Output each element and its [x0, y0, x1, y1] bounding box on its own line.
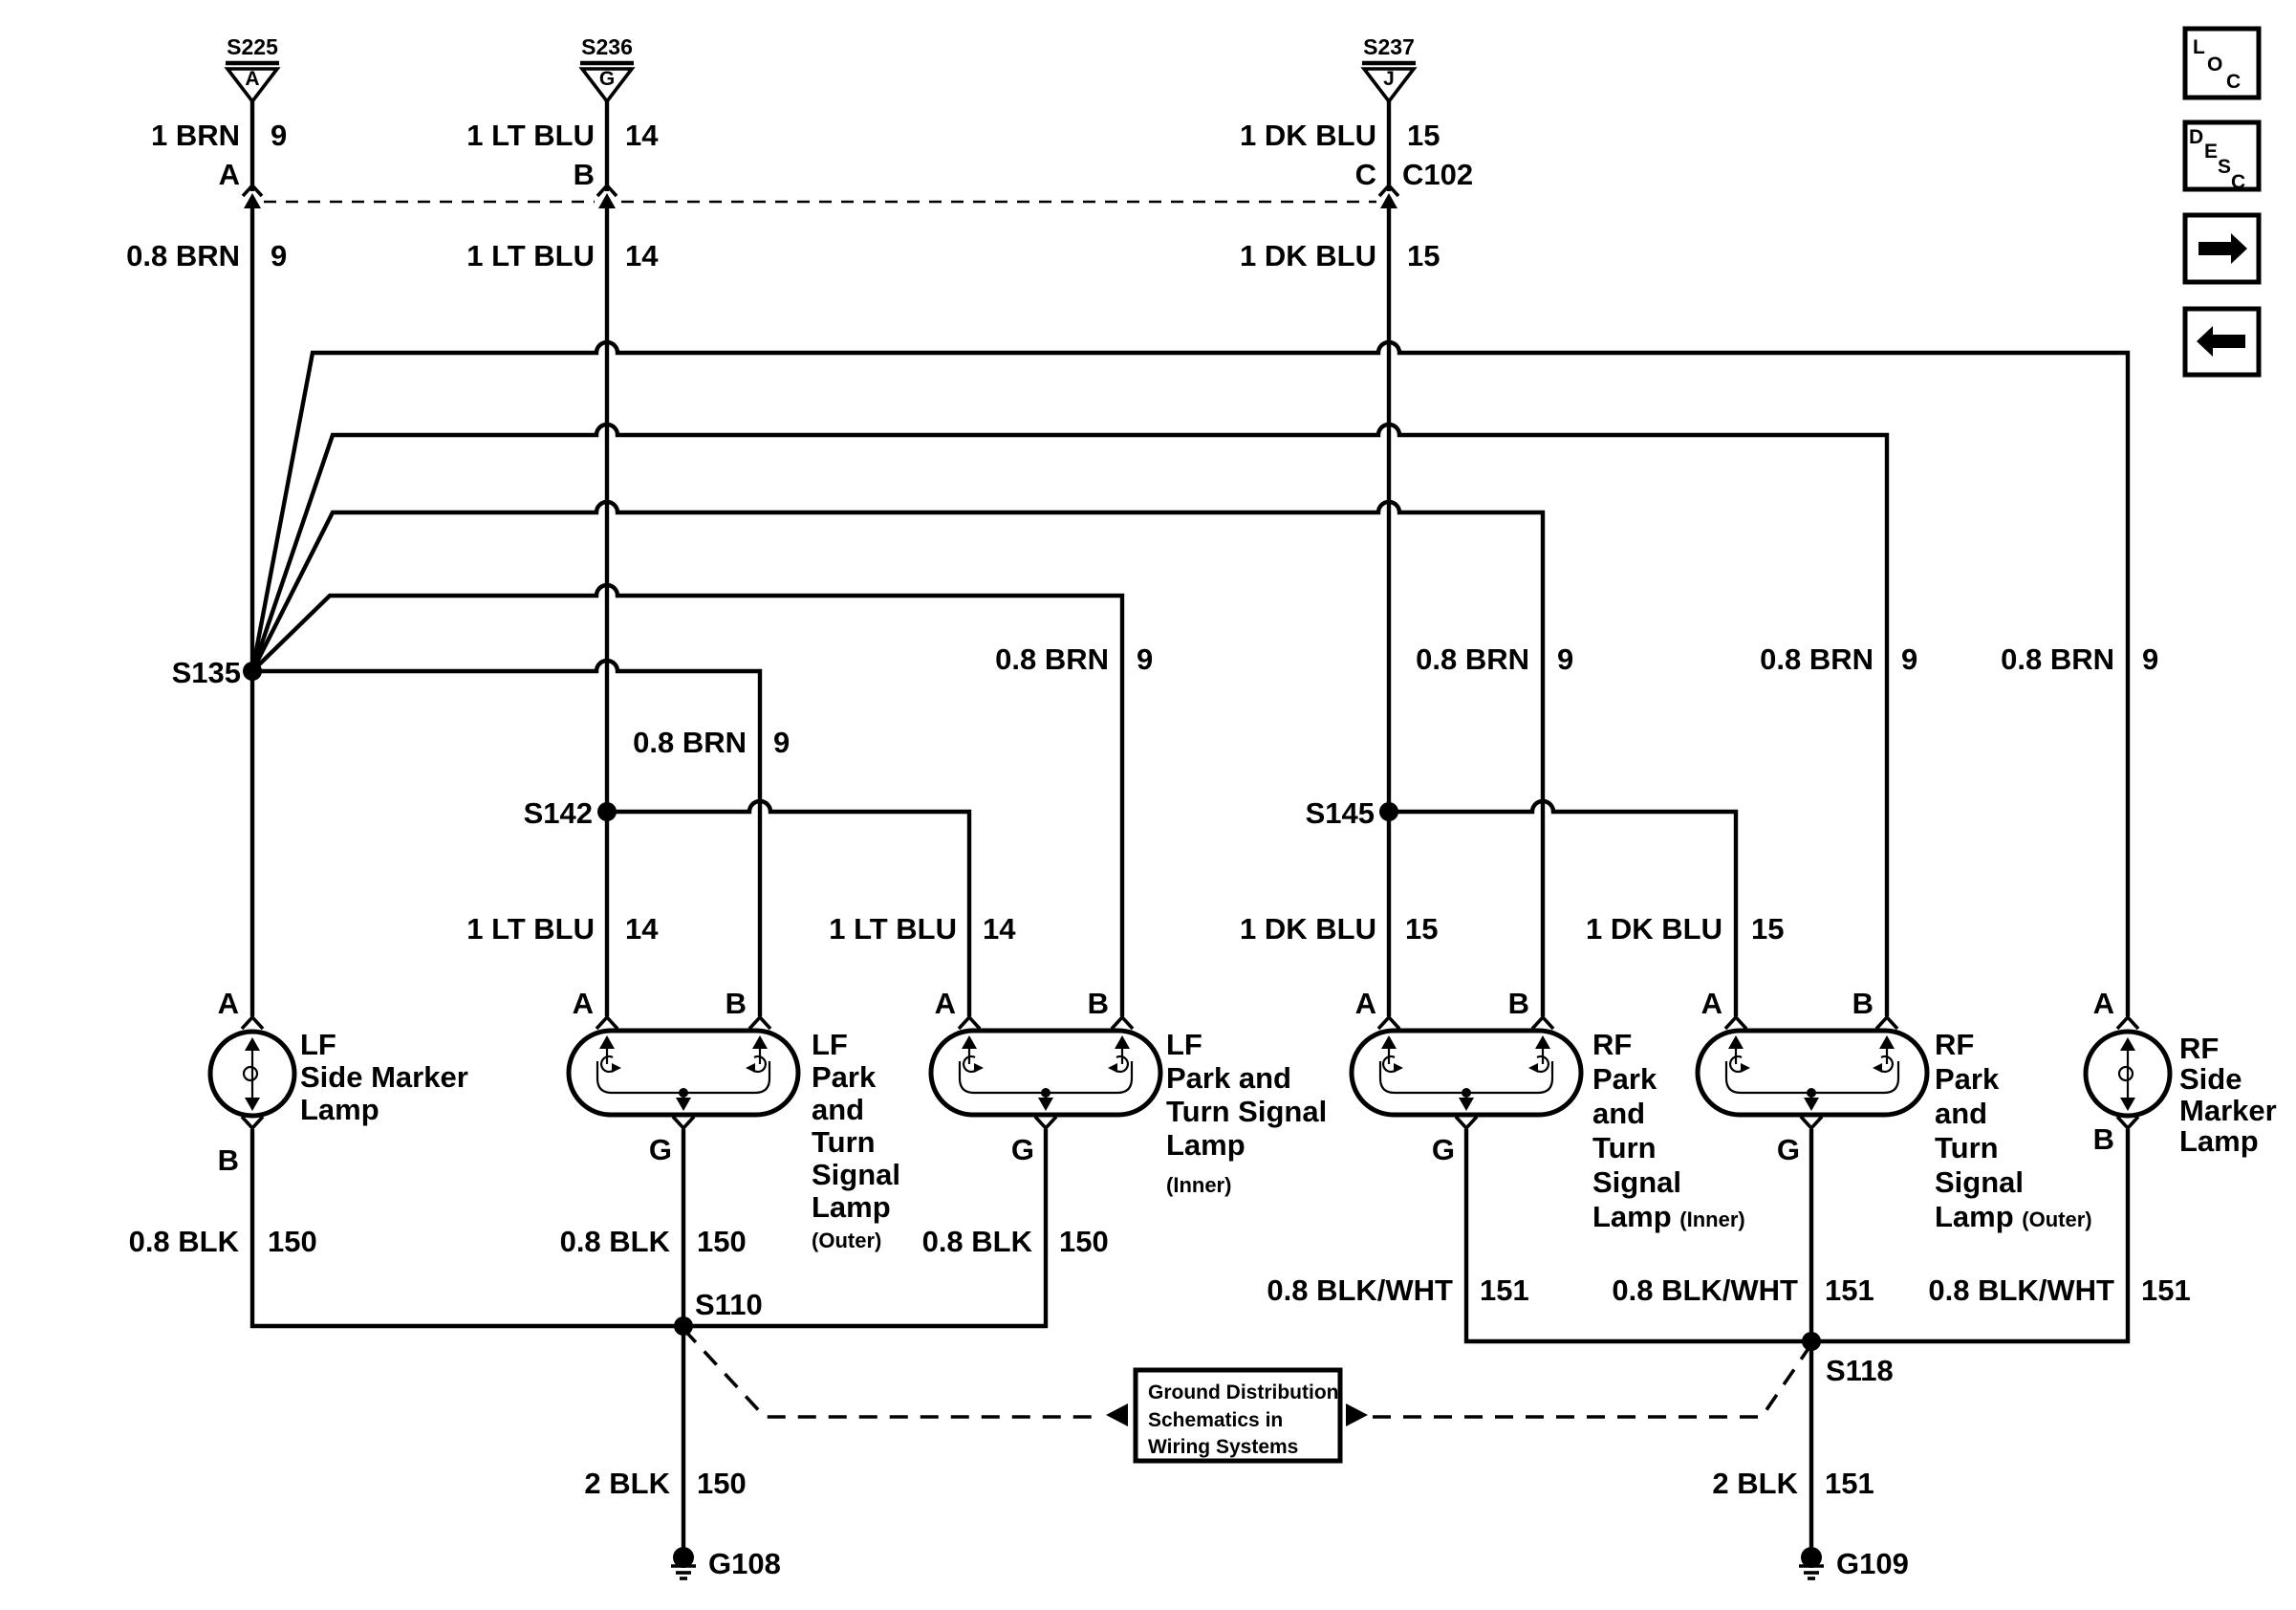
svg-text:1 DK BLU: 1 DK BLU	[1240, 912, 1376, 946]
label 0.8 BLK/WHT 151	[1267, 1273, 1528, 1307]
label 0.8 BRN 9	[2001, 642, 2158, 676]
ground G109	[1799, 1547, 1909, 1580]
wire 0.8 BRN from C102 to LF side marker lamp	[250, 205, 254, 1016]
splice symbol S236	[580, 34, 634, 101]
svg-text:S236: S236	[581, 34, 633, 59]
svg-text:A: A	[218, 987, 239, 1020]
label 0.8 BLK/WHT 151	[1612, 1273, 1874, 1307]
svg-text:14: 14	[983, 912, 1016, 946]
svg-text:LF: LF	[300, 1028, 336, 1061]
RF side marker lamp	[2086, 987, 2277, 1158]
svg-text:Lamp: Lamp	[2179, 1124, 2259, 1158]
label 1 DK BLU 15	[1240, 119, 1440, 152]
svg-text:15: 15	[1407, 239, 1440, 272]
svg-text:G: G	[599, 68, 615, 90]
svg-text:A: A	[1355, 987, 1376, 1020]
svg-text:1 LT BLU: 1 LT BLU	[466, 912, 595, 946]
wire 1 DK BLU from C102 to S145 and RF park lamp inner A	[1387, 205, 1391, 1016]
wire 1 LT BLU from C102 to S142 and LF park lamp outer A	[605, 205, 609, 1016]
label 2 BLK 151	[1712, 1467, 1874, 1500]
svg-text:LF: LF	[812, 1028, 848, 1061]
svg-text:Park: Park	[1592, 1062, 1657, 1096]
svg-text:2 BLK: 2 BLK	[1712, 1467, 1798, 1500]
svg-text:A: A	[573, 987, 594, 1020]
svg-text:B: B	[218, 1143, 239, 1177]
svg-text:0.8 BRN: 0.8 BRN	[995, 642, 1109, 676]
label 1 DK BLU 15	[1240, 912, 1438, 946]
terminal B of C102	[574, 158, 617, 208]
svg-text:S135: S135	[172, 656, 241, 689]
svg-text:0.8 BLK: 0.8 BLK	[129, 1225, 240, 1258]
svg-text:9: 9	[1901, 642, 1917, 676]
label 1 LT BLU 14	[466, 239, 659, 272]
svg-text:Wiring Systems: Wiring Systems	[1148, 1436, 1298, 1458]
svg-text:G108: G108	[708, 1547, 781, 1580]
label 0.8 BLK 150	[129, 1225, 317, 1258]
wire branch L5 from S135 to LF park lamp outer B	[252, 661, 760, 1016]
label 1 LT BLU 14	[829, 912, 1016, 946]
svg-text:O: O	[2207, 54, 2222, 76]
wire 0.8 BLK from LF inner lamp G to S110	[683, 1129, 1046, 1326]
svg-text:0.8 BLK/WHT: 0.8 BLK/WHT	[1267, 1273, 1453, 1307]
svg-text:D: D	[2189, 126, 2203, 148]
svg-text:E: E	[2204, 141, 2218, 163]
wire DK BLU from S237 to C102	[1387, 101, 1391, 191]
svg-text:and: and	[1592, 1097, 1645, 1130]
LOC box	[2185, 29, 2259, 98]
svg-text:LF: LF	[1166, 1028, 1202, 1061]
svg-text:S142: S142	[524, 796, 593, 830]
LF park and turn signal lamp (outer)	[569, 987, 900, 1252]
svg-text:150: 150	[1059, 1225, 1109, 1258]
svg-text:and: and	[1935, 1097, 1987, 1130]
svg-text:15: 15	[1405, 912, 1438, 946]
svg-text:C102: C102	[1402, 158, 1473, 191]
label 0.8 BRN 9	[1760, 642, 1917, 676]
wire 0.8 BLK/WHT from RF outer lamp G through S118 to G109	[1809, 1129, 1813, 1549]
label 1 LT BLU 14	[466, 912, 659, 946]
svg-text:0.8 BLK/WHT: 0.8 BLK/WHT	[1928, 1273, 2114, 1307]
svg-text:A: A	[1701, 987, 1722, 1020]
svg-text:151: 151	[1480, 1273, 1529, 1307]
svg-text:Side: Side	[2179, 1062, 2242, 1096]
terminal A of C102	[219, 158, 262, 208]
svg-text:RF: RF	[1592, 1028, 1632, 1061]
wire branch L1 from S135 to RF side marker lamp	[252, 342, 2128, 1016]
ground distribution note box	[1136, 1370, 1340, 1461]
svg-text:S225: S225	[227, 34, 278, 59]
wire 0.8 BLK/WHT from RF side marker B to S118	[1811, 1129, 2128, 1341]
splice symbol S225	[226, 34, 279, 101]
wire from S142 to LF park lamp inner A	[607, 801, 969, 1016]
label 1 LT BLU 14	[466, 119, 659, 152]
wire 0.8 BLK/WHT from RF inner lamp G to S118	[1466, 1129, 1811, 1341]
svg-text:9: 9	[271, 119, 287, 152]
label 0.8 BLK 150	[560, 1225, 747, 1258]
svg-text:G: G	[1432, 1133, 1455, 1166]
svg-text:A: A	[935, 987, 956, 1020]
svg-text:L: L	[2193, 36, 2205, 58]
svg-text:G: G	[1777, 1133, 1800, 1166]
svg-text:Park and: Park and	[1166, 1061, 1291, 1095]
svg-text:Park: Park	[1935, 1062, 2000, 1096]
svg-text:Park: Park	[812, 1060, 877, 1094]
label 1 DK BLU 15	[1240, 239, 1440, 272]
LF side marker lamp	[210, 987, 468, 1177]
wire BRN from S225 to C102	[250, 101, 254, 191]
svg-text:G: G	[649, 1133, 672, 1166]
svg-text:G: G	[1011, 1133, 1034, 1166]
label 1 BRN 9	[151, 119, 287, 152]
DESC box	[2185, 122, 2259, 193]
svg-text:B: B	[2093, 1122, 2114, 1156]
svg-text:RF: RF	[2179, 1032, 2219, 1065]
svg-text:0.8 BRN: 0.8 BRN	[633, 726, 747, 759]
svg-text:151: 151	[2141, 1273, 2191, 1307]
svg-text:S118: S118	[1826, 1354, 1894, 1387]
svg-text:15: 15	[1751, 912, 1784, 946]
svg-text:1 DK BLU: 1 DK BLU	[1586, 912, 1722, 946]
svg-text:151: 151	[1825, 1273, 1874, 1307]
svg-text:0.8 BRN: 0.8 BRN	[126, 239, 240, 272]
dashed reference from note box to S118	[1373, 1344, 1811, 1417]
left arrow box	[2185, 309, 2259, 375]
label 0.8 BLK 150	[922, 1225, 1109, 1258]
svg-text:Schematics in: Schematics in	[1148, 1409, 1283, 1431]
svg-text:B: B	[1852, 987, 1874, 1020]
dashed reference from S110 to ground distribution note	[683, 1329, 1101, 1417]
splice S110	[674, 1288, 763, 1336]
svg-text:9: 9	[271, 239, 287, 272]
svg-text:A: A	[219, 158, 240, 191]
svg-text:Turn Signal: Turn Signal	[1166, 1095, 1327, 1128]
wire from S145 to RF park lamp outer A	[1389, 801, 1736, 1016]
svg-text:Turn: Turn	[1935, 1131, 1999, 1164]
svg-text:0.8 BLK: 0.8 BLK	[922, 1225, 1033, 1258]
svg-text:J: J	[1383, 68, 1395, 90]
svg-text:A: A	[2093, 987, 2114, 1020]
svg-text:0.8 BRN: 0.8 BRN	[1760, 642, 1874, 676]
svg-text:0.8 BRN: 0.8 BRN	[1416, 642, 1529, 676]
RF park and turn signal lamp (inner)	[1352, 987, 1745, 1233]
right arrow box	[2185, 215, 2259, 282]
splice S145	[1306, 796, 1398, 830]
svg-text:1 LT BLU: 1 LT BLU	[466, 119, 595, 152]
svg-text:9: 9	[1137, 642, 1153, 676]
label 0.8 BRN 9	[633, 726, 790, 759]
svg-text:0.8 BRN: 0.8 BRN	[2001, 642, 2114, 676]
svg-text:1 DK BLU: 1 DK BLU	[1240, 239, 1376, 272]
svg-text:S237: S237	[1363, 34, 1415, 59]
svg-text:15: 15	[1407, 119, 1440, 152]
label 1 DK BLU 15	[1586, 912, 1784, 946]
splice S142	[524, 796, 617, 830]
svg-text:1 DK BLU: 1 DK BLU	[1240, 119, 1376, 152]
connector C102 dashed line	[264, 201, 1376, 203]
svg-text:1 BRN: 1 BRN	[151, 119, 240, 152]
LF park and turn signal lamp (inner)	[931, 987, 1327, 1197]
svg-text:1 LT BLU: 1 LT BLU	[829, 912, 957, 946]
splice S118	[1802, 1332, 1894, 1387]
svg-text:RF: RF	[1935, 1028, 1974, 1061]
wire 0.8 BLK from LF outer lamp G through S110 to G108	[682, 1129, 685, 1549]
label 0.8 BRN 9	[995, 642, 1153, 676]
svg-text:Signal: Signal	[812, 1158, 900, 1191]
wire branch L4 from S135 to LF park lamp inner B	[252, 585, 1122, 1016]
svg-text:Signal: Signal	[1592, 1165, 1681, 1199]
wire branch L2 from S135 to RF park lamp outer B	[252, 424, 1887, 1016]
svg-text:9: 9	[2142, 642, 2158, 676]
svg-text:Lamp: Lamp	[1166, 1128, 1245, 1162]
svg-text:Side Marker: Side Marker	[300, 1060, 468, 1094]
svg-text:150: 150	[697, 1225, 747, 1258]
svg-text:14: 14	[625, 912, 659, 946]
svg-text:G109: G109	[1836, 1547, 1909, 1580]
svg-text:151: 151	[1825, 1467, 1874, 1500]
svg-text:0.8 BLK/WHT: 0.8 BLK/WHT	[1612, 1273, 1798, 1307]
splice S135	[172, 656, 262, 689]
terminal C of connector C102	[1355, 158, 1474, 208]
wire branch L3 from S135 to RF park lamp inner B	[252, 502, 1543, 1016]
svg-text:A: A	[245, 68, 259, 90]
arrow pointing left at note box	[1106, 1403, 1128, 1426]
svg-text:9: 9	[773, 726, 790, 759]
svg-text:(Outer): (Outer)	[812, 1229, 881, 1252]
svg-text:150: 150	[697, 1467, 747, 1500]
svg-text:C: C	[2226, 71, 2241, 93]
svg-text:14: 14	[625, 119, 659, 152]
RF park and turn signal lamp (outer)	[1698, 987, 2092, 1233]
wire LT BLU from S236 to C102	[605, 101, 609, 191]
svg-text:Signal: Signal	[1935, 1165, 2024, 1199]
svg-text:Marker: Marker	[2179, 1094, 2277, 1127]
svg-text:Lamp: Lamp	[812, 1190, 891, 1224]
svg-text:0.8 BLK: 0.8 BLK	[560, 1225, 671, 1258]
ground G108	[671, 1547, 781, 1580]
svg-text:S145: S145	[1306, 796, 1375, 830]
svg-text:B: B	[574, 158, 595, 191]
svg-text:(Inner): (Inner)	[1166, 1173, 1231, 1197]
svg-text:Turn: Turn	[812, 1125, 876, 1159]
svg-text:Lamp: Lamp	[300, 1093, 379, 1126]
svg-text:C: C	[2231, 171, 2245, 193]
svg-text:Ground Distribution: Ground Distribution	[1148, 1382, 1338, 1403]
label 0.8 BLK/WHT 151	[1928, 1273, 2190, 1307]
label 0.8 BRN 9	[126, 239, 287, 272]
splice symbol S237	[1362, 34, 1416, 101]
wire 0.8 BLK from LF side marker B to S110	[252, 1129, 683, 1326]
svg-text:S110: S110	[695, 1288, 763, 1321]
svg-text:B: B	[726, 987, 747, 1020]
svg-text:S: S	[2218, 156, 2231, 178]
svg-text:9: 9	[1557, 642, 1573, 676]
label 2 BLK 150	[584, 1467, 746, 1500]
svg-text:1 LT BLU: 1 LT BLU	[466, 239, 595, 272]
label 0.8 BRN 9	[1416, 642, 1573, 676]
svg-text:2 BLK: 2 BLK	[584, 1467, 670, 1500]
arrow pointing right at note box	[1346, 1403, 1368, 1426]
svg-text:150: 150	[268, 1225, 317, 1258]
svg-text:C: C	[1355, 158, 1376, 191]
svg-text:B: B	[1508, 987, 1529, 1020]
svg-text:Turn: Turn	[1592, 1131, 1657, 1164]
svg-text:B: B	[1088, 987, 1109, 1020]
svg-text:and: and	[812, 1093, 864, 1126]
svg-text:14: 14	[625, 239, 659, 272]
